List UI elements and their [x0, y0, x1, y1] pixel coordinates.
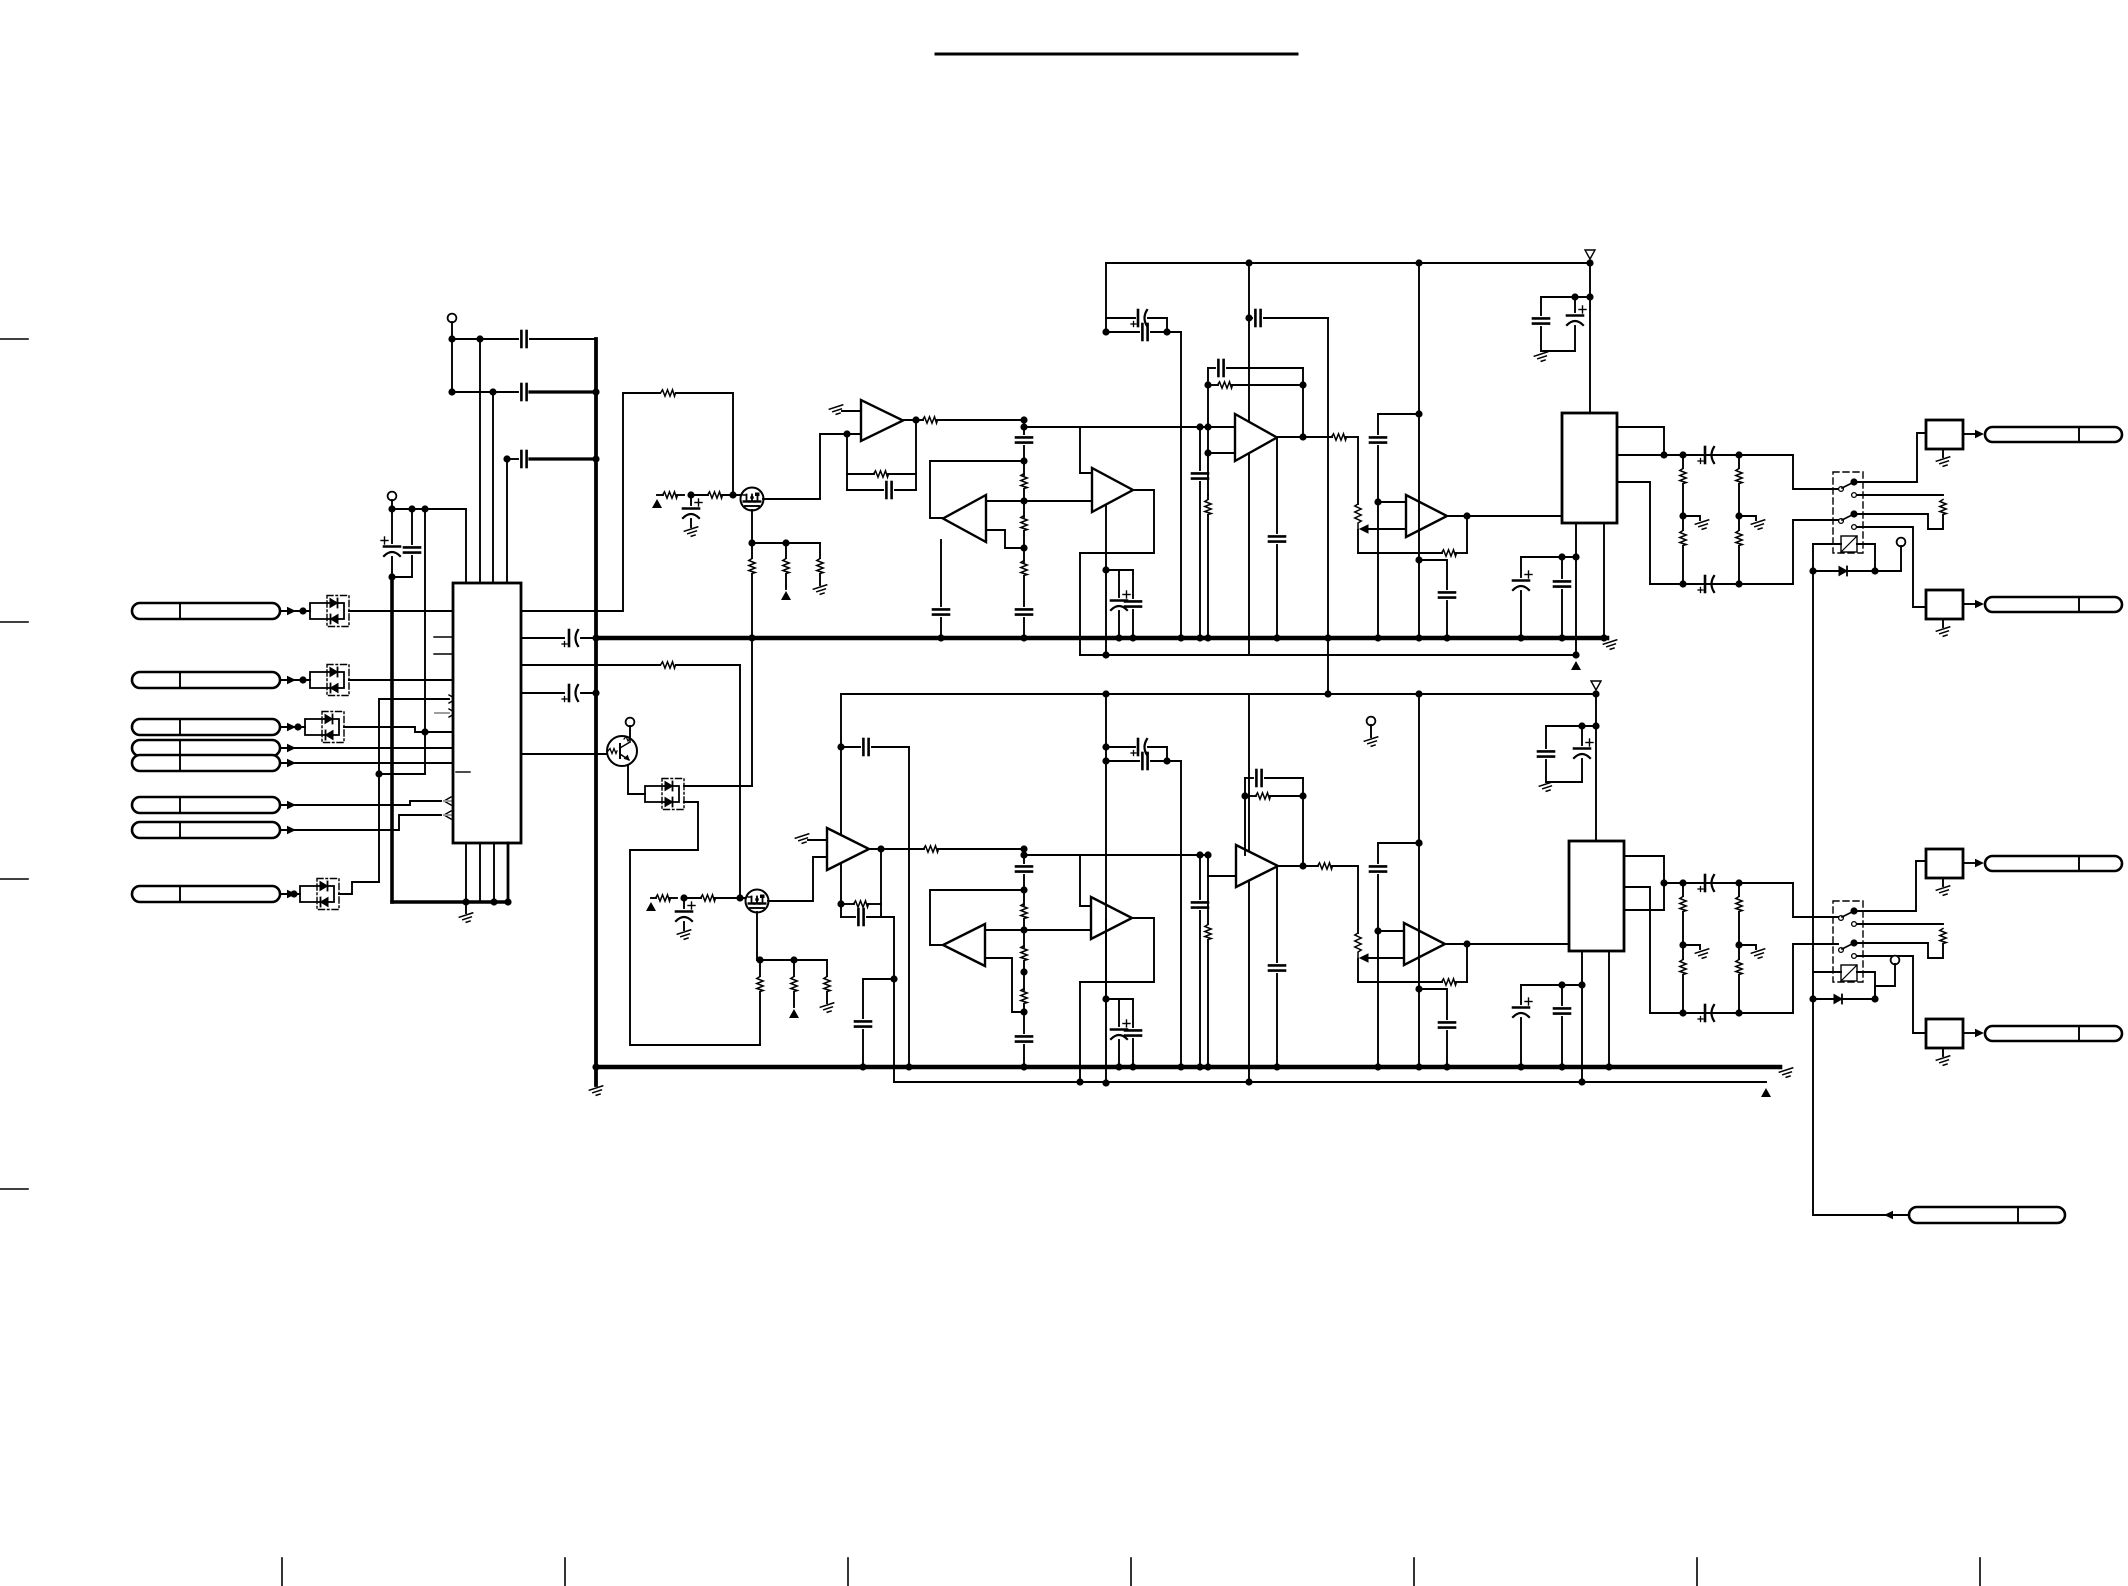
junction railcap bus	[1324, 634, 1331, 641]
wire J4 arrow	[1963, 1032, 1976, 1034]
wire chain2 seg3	[1023, 919, 1025, 947]
wire J2 arrow	[1963, 603, 1976, 605]
wire IC1 bottom pin 4	[507, 843, 510, 902]
wire IC1 pin supply2	[521, 692, 564, 694]
wire J3 gnd	[1942, 878, 1944, 886]
junction C36 bus	[1129, 1063, 1136, 1070]
wire RY2 nc1	[1857, 923, 1943, 925]
diode pair D9	[645, 779, 684, 810]
connector CN13	[1985, 1026, 2122, 1041]
junction T2 a	[388, 505, 395, 512]
wire A9 fb res row b	[1270, 795, 1303, 797]
wire IC2 pin down2	[1603, 523, 1605, 638]
bottom margin tick 3	[847, 1558, 849, 1586]
wire rail to IC2	[1589, 263, 1591, 413]
arrow into circuit from CN6	[287, 801, 296, 809]
resistor R23	[854, 901, 869, 907]
capacitor C25 electrolytic	[1698, 447, 1714, 464]
wire A6 fb row Cb	[867, 916, 894, 918]
junction dv1	[1735, 941, 1742, 948]
junction plus b	[1204, 423, 1211, 430]
resistor Rdiv1a	[1736, 469, 1742, 484]
connector CN10	[1985, 597, 2122, 612]
wire A6 fb row R	[841, 903, 854, 905]
wire trimmer2 bot	[1357, 959, 1359, 982]
wire rail drop right b	[1418, 560, 1420, 638]
capacitor C9	[886, 482, 891, 498]
mosfet Q3	[746, 890, 769, 913]
wire drain r2 leg2	[785, 574, 787, 589]
wire snubber b	[1446, 601, 1448, 638]
wire pair4 cap2 leg	[1132, 999, 1134, 1027]
junction row3 a	[503, 455, 510, 462]
wire RY2 out2	[1857, 956, 1926, 1033]
wire A5 plus drop	[1377, 502, 1379, 638]
capacitor C23 electrolytic	[1513, 571, 1532, 590]
wire ground bus lower	[596, 1065, 1780, 1070]
bottom margin tick 1	[281, 1558, 283, 1586]
arrow into circuit from CN4	[287, 744, 296, 752]
capacitor C26 electrolytic	[1698, 576, 1714, 593]
junction C19 top	[1196, 423, 1203, 430]
junction rail2 b	[1324, 690, 1331, 697]
wire drain r3 leg2	[819, 574, 821, 585]
resistor Rdiv0b	[1680, 531, 1686, 546]
IC1 left stub pin a	[434, 636, 452, 638]
resistor R17	[1940, 500, 1946, 515]
junction C14 bus	[1129, 634, 1136, 641]
wire T6 stem	[1875, 964, 1895, 999]
wire plusrow cap drop b	[1199, 482, 1201, 638]
op-amp A1	[861, 400, 903, 441]
capacitor C16	[1142, 324, 1147, 340]
wire drain r1 leg2	[751, 574, 753, 638]
wire pair3 right vert	[1166, 747, 1168, 761]
resistor R16	[1442, 550, 1457, 556]
wire lower loop right	[676, 665, 740, 898]
wire A5 fb row b	[1456, 552, 1467, 554]
arrow J1	[1975, 430, 1984, 438]
wire gate2 row start	[651, 897, 656, 899]
junction snub2 a	[1415, 985, 1422, 992]
op-amp A3	[1092, 468, 1133, 512]
IC1 left stub pin b	[434, 653, 452, 655]
junction coil2 a	[1871, 995, 1878, 1002]
wire Q3 drain	[756, 912, 758, 960]
junction C19 bus	[1196, 634, 1203, 641]
capacitor C42	[1538, 751, 1554, 756]
junction drain b	[782, 539, 789, 546]
wire IC pin up d	[506, 459, 508, 583]
junction thin2 dot	[1578, 1078, 1585, 1085]
resistor R9	[923, 417, 938, 423]
wire divider2 0 top	[1682, 883, 1684, 896]
trimmer VR1	[1355, 504, 1368, 533]
wire sync vertical	[379, 699, 449, 882]
IC1 main processor	[453, 583, 521, 843]
connector CN11	[1909, 1207, 2065, 1223]
wire cap row 1 left	[452, 338, 518, 340]
wire under A3 vert	[1105, 505, 1107, 570]
ground div1	[1751, 520, 1766, 531]
wire A2 plus branch	[1080, 427, 1092, 473]
junction gate a	[687, 491, 694, 498]
wire A10 fb row	[1358, 981, 1442, 983]
wire drain2 stub	[757, 959, 760, 961]
junction A5 out	[1463, 512, 1470, 519]
output box J3	[1926, 849, 1963, 878]
wire T1 vertical a	[451, 339, 453, 392]
wire A1 out row	[937, 419, 1024, 421]
junction drain a	[748, 539, 755, 546]
wire pair2 cap2 leg2	[1132, 610, 1134, 638]
junction T2 gnd	[388, 573, 395, 580]
relay RY1 frame	[1833, 472, 1863, 553]
diode D11	[1834, 995, 1842, 1004]
wire ground rail left thick	[390, 577, 394, 902]
wire D3 to IC1 pin	[344, 727, 453, 732]
resistor R30	[1205, 925, 1211, 940]
resistor R8	[874, 471, 889, 477]
wire J4 gnd	[1942, 1048, 1944, 1056]
arrow into circuit from CN2	[287, 676, 296, 684]
wire pair4 row	[1106, 998, 1133, 1000]
wire IC2 sup cap1 b	[1520, 591, 1522, 638]
wire T2 branch 3	[424, 509, 426, 732]
resistor R25	[1021, 904, 1027, 919]
wire drain2 r3 leg2	[826, 992, 828, 1003]
connector CN12	[1985, 856, 2122, 871]
wire divider2 1 mid	[1738, 912, 1740, 945]
resistor R11	[1021, 516, 1027, 531]
wire A9 fb left vert	[1244, 796, 1246, 855]
junction chain jog	[1020, 423, 1027, 430]
power flag up thin	[1571, 661, 1581, 670]
junction rail c	[1586, 259, 1593, 266]
output arrow CN7	[444, 811, 451, 819]
output arrow CN6	[444, 797, 451, 805]
wire divider 1 bot	[1738, 546, 1740, 584]
junction coil2 b	[1809, 995, 1816, 1002]
junction row1 b	[476, 335, 483, 342]
wire A4 res drop b	[1207, 515, 1209, 638]
wire chain2 seg4	[1023, 961, 1025, 990]
power flag up g3	[646, 902, 656, 911]
junction A1 inv	[843, 430, 850, 437]
wire topcap2 leg2	[1574, 326, 1576, 351]
ground drain2 r3	[820, 1003, 835, 1014]
wire A1 output	[903, 419, 923, 421]
wire IC1 pin to lower loop	[521, 664, 660, 666]
left margin tick 2	[0, 621, 28, 623]
wire cap row 1 right	[530, 338, 596, 340]
power flag up g4	[789, 1009, 799, 1018]
resistor R18	[656, 895, 671, 901]
wire relay drive vertical	[1813, 544, 1909, 1215]
capacitor C27 electrolytic	[676, 902, 695, 921]
wire div1 gnd stub	[1739, 516, 1756, 520]
junction thin line a	[1102, 651, 1109, 658]
relay RY1 pole2	[1839, 513, 1857, 529]
clock input arrow a	[449, 695, 456, 703]
terminal T1	[448, 314, 457, 323]
relay RY2 pole2	[1839, 942, 1857, 958]
relay RY2 contact1	[1850, 907, 1857, 914]
bottom margin tick 2	[564, 1558, 566, 1586]
wire A6 out vert	[880, 849, 882, 917]
op-amp A5	[1406, 495, 1447, 537]
junction A4 out	[1299, 433, 1306, 440]
op-amp A10	[1404, 923, 1445, 965]
wire A1 fb row R	[847, 473, 874, 475]
wire A6 out row	[938, 848, 1024, 850]
connector CN1	[132, 603, 280, 619]
wire relay drive row	[1813, 570, 1901, 572]
wire gnd stub	[465, 902, 467, 913]
junction C12 bus	[937, 634, 944, 641]
connector CN7	[132, 822, 280, 838]
wire gate row mid2	[691, 494, 708, 496]
resistor R12	[1021, 561, 1027, 576]
wire gate cap leg2	[690, 519, 692, 527]
wire A10 plus cap vert	[1377, 843, 1379, 863]
ground J3	[1936, 886, 1951, 897]
wire IC3 supply row2	[1521, 984, 1582, 986]
capacitor C2	[521, 384, 526, 400]
mosfet Q2	[741, 488, 764, 511]
wire RY1 out1	[1857, 433, 1926, 482]
resistor R2	[661, 662, 676, 668]
wire T5 stem	[1370, 725, 1372, 737]
wire x894 cap branch	[863, 979, 894, 1018]
wire top supply rail	[1106, 262, 1590, 264]
junction R15 bus	[1204, 634, 1211, 641]
wire T2 cap leg 2	[411, 509, 413, 544]
junction IC3 sup d	[1578, 981, 1585, 988]
junction chain top	[1020, 416, 1027, 423]
capacitor C11	[1016, 609, 1032, 614]
wire A5 plus cap top	[1378, 413, 1419, 415]
wire A1 plus	[842, 410, 861, 412]
capacitor C6 electrolytic	[562, 630, 578, 647]
wire A4 fb cap row b	[1227, 367, 1303, 369]
junction coil b	[1809, 567, 1816, 574]
wire A7 out	[1080, 918, 1154, 982]
wire IC3 sup2 cap1b	[1520, 1018, 1522, 1067]
capacitor C38	[1192, 902, 1208, 907]
ground A1 plus	[829, 405, 844, 416]
junction C35 bus	[1115, 1063, 1122, 1070]
wire pair3 top row	[1106, 746, 1135, 748]
resistor R13	[1218, 382, 1233, 388]
wire drain r1 leg	[751, 543, 753, 558]
wire A4 fb left vert	[1207, 368, 1209, 495]
wire drain2 r3 leg	[826, 960, 828, 976]
wire divider 1 mid2	[1738, 516, 1740, 530]
wire A3 minus row	[1024, 500, 1092, 502]
op-amp A4	[1235, 414, 1277, 461]
wire divider2 0 mid	[1682, 912, 1684, 945]
output box J2	[1926, 590, 1963, 619]
resistor R24	[924, 846, 939, 852]
connector CN6	[132, 797, 280, 813]
capacitor C4 electrolytic	[381, 537, 400, 556]
wire RY2 coil left	[1813, 971, 1841, 973]
junction pair1 b	[1163, 328, 1170, 335]
wire IC3 sup cap2b	[1545, 760, 1547, 782]
wire Q1 collector	[629, 726, 631, 737]
resistor Rdv0b	[1680, 960, 1686, 975]
wire chain2 seg6	[1023, 1045, 1025, 1067]
junction IC3 sup a	[1578, 722, 1585, 729]
wire out2 to relay top	[1793, 883, 1838, 917]
wire J3 arrow	[1963, 862, 1976, 864]
wire A6 cap row	[841, 746, 860, 748]
relay RY1 coil	[1841, 536, 1857, 552]
junction x1080 thin	[1076, 1078, 1083, 1085]
wire D9 bottom out	[630, 802, 760, 1045]
resistor R1	[661, 390, 676, 396]
junction topcap b	[1586, 293, 1593, 300]
wire divider2 0 bot	[1682, 975, 1684, 1013]
wire pair3 top row b	[1148, 746, 1167, 748]
junction out2 a	[1660, 879, 1667, 886]
wire A9 plus branch	[1208, 855, 1236, 876]
capacitor C7 electrolytic	[562, 685, 578, 702]
junction chain2 e	[1020, 1008, 1027, 1015]
junction rail cap	[1245, 314, 1252, 321]
wire chain2 seg5	[1023, 1004, 1025, 1033]
junction chain2 b	[1020, 886, 1027, 893]
wire A2buf minus	[986, 530, 1024, 548]
relay RY2 coil	[1841, 965, 1857, 981]
diode pair D1	[310, 596, 349, 627]
junction IC2 sup a	[1558, 553, 1565, 560]
wire A10 plus cap vert b	[1377, 875, 1379, 931]
junction IC3 sup b	[1592, 722, 1599, 729]
junction pair3 bus	[1177, 1063, 1184, 1070]
junction plus cap2	[1415, 839, 1422, 846]
junction pair3 a	[1102, 743, 1109, 750]
wire to trimmer	[1357, 437, 1359, 504]
junction CN8	[290, 890, 297, 897]
ground J1	[1936, 457, 1951, 468]
wire trimmer minus	[1367, 528, 1406, 530]
capacitor C3	[521, 451, 526, 467]
wire CN2 to D2	[280, 679, 310, 681]
wire T4 stem	[1900, 546, 1902, 571]
wire gate row mid3	[722, 494, 741, 496]
capacitor C18	[1218, 360, 1223, 376]
wire pair4 cap1 leg2	[1118, 1040, 1120, 1067]
junction A4 minus	[1204, 449, 1211, 456]
junction snub2 bus	[1415, 1063, 1422, 1070]
wire trimmer bot	[1357, 530, 1359, 553]
IC1 internal dash	[456, 771, 470, 773]
wire CN8 to D8	[280, 893, 300, 895]
wire to trimmer2	[1357, 866, 1359, 933]
junction row2 a	[448, 388, 455, 395]
wire divider2 0 mid2	[1682, 945, 1684, 959]
resistor R26	[1021, 946, 1027, 961]
wire supply1 to bus	[581, 637, 596, 639]
wire A1 fb row Cb	[895, 489, 916, 491]
wire T2 cap leg 1b	[391, 557, 393, 577]
wire chain seg2	[1023, 446, 1025, 475]
junction snub bus	[1415, 634, 1422, 641]
resistor Rdv1b	[1736, 960, 1742, 975]
connector CN4	[132, 740, 280, 756]
wire A9 fb cap row	[1245, 777, 1253, 779]
wire drain r2 leg	[785, 543, 787, 558]
wire A10 plus row	[1378, 930, 1404, 932]
junction thin end	[1572, 651, 1579, 658]
capacitor C28	[863, 739, 868, 755]
terminal T6	[1891, 956, 1900, 965]
resistor R3	[663, 492, 678, 498]
wire plusrow2 cap drop	[1199, 855, 1201, 899]
wire drain row	[752, 542, 820, 544]
bottom margin tick 6	[1696, 1558, 1698, 1586]
gray stub CN6	[444, 800, 453, 802]
arrow J3	[1975, 859, 1984, 867]
wire chain seg5	[1023, 576, 1025, 606]
wire gate2 row mid	[670, 897, 677, 899]
wire trimmer2 minus	[1367, 957, 1404, 959]
wire J2 gnd	[1942, 619, 1944, 627]
wire pair1 bot row	[1106, 331, 1139, 333]
wire T2 branch 3b	[379, 732, 425, 774]
capacitor C34	[1142, 753, 1147, 769]
wire IC3 sup bottom	[1546, 781, 1582, 783]
wire chain seg6	[1023, 618, 1025, 638]
capacitor C8 electrolytic	[683, 499, 702, 518]
resistor R15	[1205, 500, 1211, 515]
junction chain bus	[1020, 634, 1027, 641]
junction pair1 a	[1102, 328, 1109, 335]
wire A1 fb left	[846, 434, 848, 490]
wire pair2 left down	[1105, 570, 1107, 655]
power flag down rail1	[1585, 250, 1595, 259]
wire A8 minus	[985, 958, 1024, 1012]
wire CN3 to D3	[280, 726, 305, 728]
wire signal return lower	[894, 1081, 1766, 1083]
wire gate2 cap leg2	[683, 922, 685, 930]
left margin tick 3	[0, 878, 28, 880]
wire pair2 row	[1106, 569, 1133, 571]
capacitor C10	[1016, 437, 1032, 442]
junction A9 plus jog	[1204, 851, 1211, 858]
wire IC1 pin supply1	[521, 637, 564, 639]
junction CN2	[299, 676, 306, 683]
wire T2 cap leg 1	[391, 509, 393, 543]
junction A9 fb a	[1241, 792, 1248, 799]
capacitor C32	[1016, 1036, 1032, 1041]
capacitor C19	[1192, 473, 1208, 478]
junction x1106 thin	[1102, 1079, 1109, 1086]
wire A5 plus cap vert b	[1377, 446, 1379, 502]
wire A4 fb res row b	[1232, 384, 1303, 386]
title underline	[936, 53, 1297, 56]
junction C38 bus	[1196, 1063, 1203, 1070]
wire A10 out to IC3	[1447, 943, 1569, 945]
wire D9 top out	[684, 785, 752, 787]
wire x894 cap branch b	[862, 1030, 864, 1067]
junction A4 fb b	[1299, 381, 1306, 388]
wire rail2 drop 1249	[1248, 694, 1250, 1082]
wire T2 stem	[391, 500, 393, 509]
wire railcap drop	[1327, 318, 1329, 694]
